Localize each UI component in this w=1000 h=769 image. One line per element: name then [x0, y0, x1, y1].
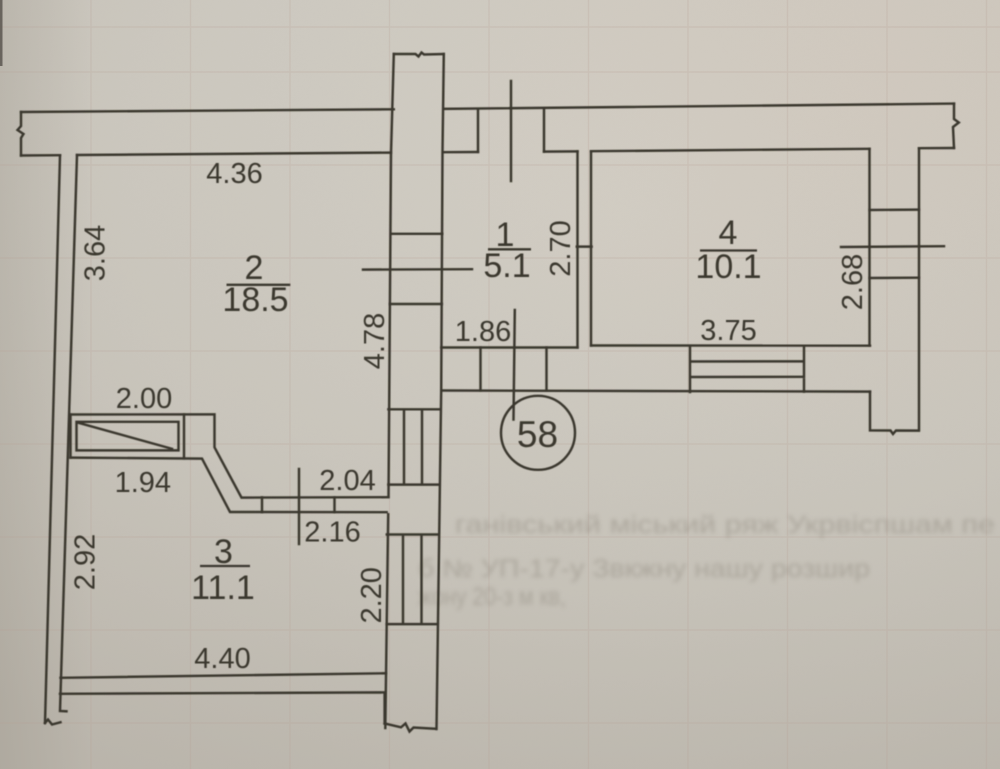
- ticks across rooms 2/1 wall: [390, 234, 443, 304]
- svg-text:4: 4: [719, 214, 738, 252]
- svg-text:3.75: 3.75: [700, 315, 756, 347]
- room 3 fraction line: [200, 565, 250, 567]
- svg-text:3.64: 3.64: [80, 225, 112, 281]
- hall upper wall with diagonal: [71, 414, 389, 497]
- svg-text:4.36: 4.36: [206, 158, 262, 190]
- room 3 bottom wall inner: [61, 673, 387, 678]
- room 3 bottom wall outer: [60, 692, 385, 723]
- svg-text:2.04: 2.04: [319, 465, 375, 497]
- svg-text:2.16: 2.16: [304, 517, 360, 549]
- left wall bottom break mark: [45, 720, 61, 725]
- svg-text:5.1: 5.1: [483, 247, 530, 285]
- svg-text:2.70: 2.70: [545, 220, 577, 276]
- hall top wall: [441, 391, 870, 392]
- radiator block below room 4: [690, 346, 804, 392]
- svg-text:10.1: 10.1: [695, 248, 761, 286]
- room 4 right wall inner edge: [868, 149, 870, 346]
- chimney shaft above top wall: [394, 53, 444, 57]
- hall door jambs below room 1: [481, 348, 547, 391]
- dimension tick 2.04/2.16: [298, 469, 300, 544]
- room 1 window jambs in top wall: [478, 109, 544, 152]
- svg-text:4.40: 4.40: [194, 643, 250, 675]
- svg-text:1.86: 1.86: [455, 316, 511, 348]
- room 1 bottom wall: [441, 346, 577, 348]
- room 4 window jambs: [870, 210, 920, 278]
- dark page edge top-left: [0, 0, 3, 66]
- room 2 fraction line: [227, 284, 291, 286]
- room 1 fraction line: [488, 248, 531, 250]
- outer wall right edge: [918, 148, 920, 430]
- closet inner box: [77, 422, 179, 451]
- tick in hall wall: [262, 497, 335, 512]
- dimension tick 4.78: [363, 268, 472, 271]
- svg-text:2.00: 2.00: [116, 383, 172, 415]
- ghost bleed-through text: [418, 511, 995, 611]
- svg-text:ганівський міський ряж Укрвісп: ганівський міський ряж Укрвіспшам пе: [455, 511, 995, 539]
- svg-text:11.1: 11.1: [191, 569, 255, 607]
- closet left edge: [69, 415, 71, 458]
- wall between room 2 and room 1 (right edge, continues to bottom): [437, 54, 444, 729]
- svg-text:жону 20-з м кв,: жону 20-з м кв,: [418, 583, 566, 611]
- wall between rooms 1 and 4: [577, 151, 592, 347]
- hall lower wall with diagonal: [71, 458, 387, 513]
- lower right exterior step: [870, 392, 919, 434]
- apartment number circle: [501, 396, 575, 470]
- room 4 bottom wall: [591, 344, 870, 347]
- stair shaft lower hatched block: [387, 535, 438, 625]
- outer wall: top-left end with break mark: [18, 112, 24, 156]
- svg-text:4.78: 4.78: [359, 313, 391, 369]
- outer wall: top edge: [21, 104, 954, 112]
- wall between room 2 and room 1 (left edge): [385, 54, 394, 728]
- svg-text:2.92: 2.92: [70, 534, 102, 590]
- closet diagonal: [78, 423, 173, 449]
- closet right edge: [183, 414, 185, 458]
- svg-text:2.68: 2.68: [837, 254, 869, 310]
- outer wall: top band bottom edge segments: [21, 148, 954, 156]
- svg-text:б № УП-17-у Звкжну нашу розш: б № УП-17-у Звкжну нашу розшир: [418, 555, 870, 583]
- left outer wall: [45, 155, 60, 723]
- svg-text:18.5: 18.5: [222, 281, 288, 319]
- room 4 fraction line: [700, 249, 757, 251]
- svg-text:58: 58: [517, 414, 558, 455]
- dimension tick 2.68: [841, 245, 944, 248]
- hall door axis tick: [514, 310, 515, 420]
- outer wall: top-right end with notch: [953, 104, 959, 148]
- stair shaft upper hatched block: [388, 409, 439, 484]
- svg-text:1.94: 1.94: [115, 467, 171, 499]
- room 1 window axis tick: [510, 81, 512, 181]
- left inner wall: [60, 155, 77, 711]
- svg-text:2.20: 2.20: [356, 567, 388, 623]
- bottom edge with break mark: [385, 724, 436, 732]
